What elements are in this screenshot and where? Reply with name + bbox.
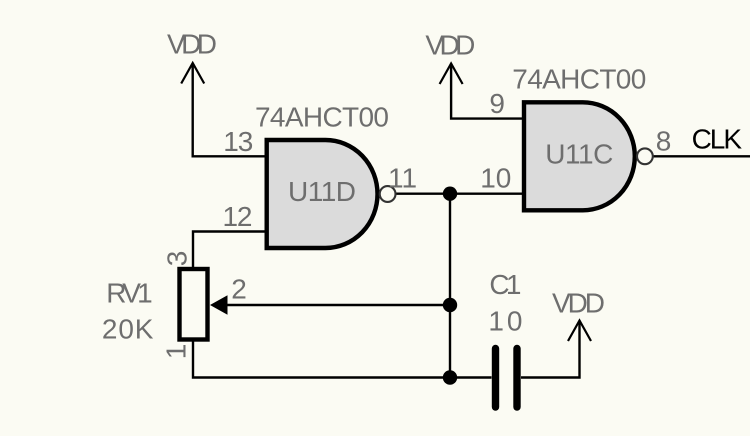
nand gate U11D body — [267, 140, 378, 248]
nand gate U11C output bubble — [637, 148, 653, 164]
wire U11D output pin 11 to U11C pin 10 — [396, 192, 524, 194]
junction node at bottom rail — [443, 370, 457, 384]
power symbol VDD arrow 1 — [181, 63, 204, 84]
svg-text:13: 13 — [223, 126, 253, 157]
wire C1 right plate to VDD3 — [521, 321, 580, 378]
wire pin 8 to CLK — [652, 155, 750, 157]
svg-text:2: 2 — [231, 274, 247, 305]
wire VDD2 drop to pin 9 — [451, 64, 524, 119]
svg-text:RV1: RV1 — [106, 278, 153, 309]
nand gate U11D output bubble — [380, 186, 396, 202]
capacitor C1 left plate — [492, 349, 499, 408]
wire RV1 pin 1 to bottom rail — [193, 340, 492, 378]
svg-text:VDD: VDD — [167, 29, 217, 60]
svg-text:74AHCT00: 74AHCT00 — [255, 102, 389, 133]
svg-text:VDD: VDD — [425, 29, 475, 60]
svg-text:8: 8 — [656, 126, 672, 157]
wire vertical feedback bus — [449, 194, 451, 378]
wire pin 12 to RV1 pin 3 — [193, 232, 267, 270]
svg-text:12: 12 — [223, 201, 253, 232]
svg-text:U11C: U11C — [545, 138, 613, 169]
wire VDD1 drop to pin 13 — [193, 63, 267, 156]
power symbol VDD arrow 3 — [568, 321, 591, 342]
svg-text:3: 3 — [161, 251, 192, 267]
junction node at pin11/pin10 — [443, 187, 457, 201]
svg-text:1: 1 — [161, 344, 192, 360]
potentiometer RV1 wiper arrow — [210, 295, 228, 314]
wire RV1 wiper to vertical bus — [227, 304, 450, 306]
svg-text:CLK: CLK — [692, 123, 743, 154]
svg-text:VDD: VDD — [552, 288, 605, 319]
svg-text:9: 9 — [489, 88, 505, 119]
junction node at wiper — [443, 298, 457, 312]
svg-text:20K: 20K — [102, 314, 154, 345]
power symbol VDD arrow 2 — [440, 64, 463, 85]
svg-text:10: 10 — [480, 163, 511, 194]
svg-text:U11D: U11D — [288, 176, 356, 207]
capacitor C1 right plate — [513, 349, 520, 408]
svg-text:C1: C1 — [489, 269, 521, 300]
nand gate U11C body — [524, 102, 635, 210]
potentiometer RV1 body — [180, 269, 208, 340]
svg-text:74AHCT00: 74AHCT00 — [512, 64, 646, 95]
svg-text:11: 11 — [388, 163, 417, 194]
